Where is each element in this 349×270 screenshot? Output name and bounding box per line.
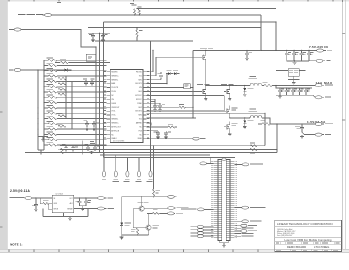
ground reg out caps: [80, 206, 86, 208]
wire J1 right fan 4: [234, 232, 253, 235]
inductor L1: [249, 76, 262, 85]
label mid C27: [82, 141, 95, 155]
wire y62.5 with resistor R6: [55, 59, 110, 64]
connector J1 pin stubs: [214, 161, 218, 237]
connector E1 PWR_SYS_ON: [18, 13, 53, 16]
wire SW2 route: [147, 112, 265, 114]
svg-text:INTVCC: INTVCC: [136, 99, 143, 101]
resistor ladder R26: [44, 142, 107, 146]
feedback resistor R38: [250, 143, 257, 147]
svg-text:LINEAR TECHNOLOGY CORPORATION: LINEAR TECHNOLOGY CORPORATION: [277, 222, 333, 226]
resistor ladder R10: [44, 58, 107, 62]
wire reg output: [74, 197, 98, 199]
junction top rail: [134, 14, 135, 15]
junction dots switch1: [229, 85, 230, 86]
capacitor C22 extvcc: [158, 103, 165, 111]
wire vout cap bank top: [276, 86, 312, 89]
resistor ladder R12: [44, 68, 107, 72]
diode D6 vertical: [120, 222, 131, 236]
capacitor C18 vout: [298, 88, 304, 96]
connector E7 GND vout: [312, 95, 331, 99]
connector J1 body: [218, 160, 230, 241]
resistor R37 fcb: [168, 124, 177, 128]
FET Q5 phase2 bottom: [224, 121, 237, 132]
svg-text:OUT: OUT: [69, 198, 72, 200]
wire top rail 2: [137, 8, 276, 10]
wire phase2 fet rail: [223, 95, 225, 111]
wire J1 right fan 2: [234, 227, 253, 230]
connector E4 GND terminal: [314, 59, 331, 62]
ground mid cluster: [41, 139, 45, 142]
wire ladder inner rail x66: [65, 76, 67, 118]
power good resistor block: [276, 69, 305, 84]
svg-text:SW2: SW2: [138, 115, 142, 117]
capacitor C23: [154, 131, 160, 139]
wire VOUT io rail: [258, 123, 315, 125]
capacitor C30 reg out: [84, 198, 91, 206]
testpoint TP3: [114, 155, 118, 180]
ground vout bank: [278, 95, 282, 98]
wire J1 right fan 5: [234, 235, 253, 238]
label top small 1: [57, 1, 61, 4]
connector E6 VOUT_CPU_CORE: [315, 84, 333, 87]
IC U2 LT1121 regulator: [48, 193, 74, 212]
resistor ladder R18: [44, 100, 107, 104]
power rail top y50.4: [193, 49, 261, 51]
svg-text:SENSE1-: SENSE1-: [111, 79, 118, 81]
wire J1 right fan 1: [234, 224, 256, 227]
svg-text:SENSE1+: SENSE1+: [111, 75, 118, 77]
svg-text:BOOST1: BOOST1: [135, 83, 142, 85]
wire feedback vertical x265: [264, 113, 266, 146]
sense resistor RS2: [260, 120, 270, 125]
page margin strip left: [0, 0, 7, 249]
connector E9 GND io: [302, 132, 331, 136]
resistor ladder R17: [44, 95, 107, 99]
capacitor C5 input: [292, 50, 298, 61]
svg-text:DEMO BOARD: DEMO BOARD: [287, 245, 306, 249]
svg-text:BG2: BG2: [139, 107, 142, 109]
wire J1 top right: [234, 163, 242, 165]
connector E10 VOUT_CPU_CLK in: [10, 197, 32, 200]
svg-text:EXTVCC: EXTVCC: [135, 95, 142, 97]
wire BOOST1 route: [147, 83, 167, 85]
svg-text:U1 LTC1709EG: U1 LTC1709EG: [113, 141, 125, 143]
capacitor C1: [89, 33, 95, 39]
wire INTVCC route: [147, 99, 155, 104]
wire BG1 route: [147, 90, 200, 92]
wire PGND route: [147, 102, 160, 104]
connector J1 pin numbers: [211, 160, 213, 163]
ground io: [300, 135, 304, 138]
sense resistor RS1: [262, 82, 272, 87]
svg-text:SW1: SW1: [138, 79, 142, 81]
wire input ground bus: [287, 60, 309, 62]
wire TG1 route: [147, 57, 200, 76]
svg-text:PLLFLTR: PLLFLTR: [111, 87, 119, 89]
bottom border ticks: [9, 250, 10, 253]
ground U2: [68, 217, 72, 220]
capacitor C10 ith: [83, 120, 89, 131]
svg-text:2.5V@0.11A: 2.5V@0.11A: [10, 189, 30, 193]
title header row: [275, 242, 342, 245]
svg-text:NOTE 1:: NOTE 1:: [10, 242, 22, 246]
junction dots ladder: [44, 70, 45, 71]
FET Q4 phase2 top: [224, 106, 237, 118]
svg-text:VOS-: VOS-: [111, 111, 115, 113]
wire BOOST2 route: [147, 110, 224, 112]
switch node phase2 wire: [230, 117, 250, 119]
wire vertical from PWR_SYS_ON: [260, 15, 262, 50]
ground ladder rails: [39, 152, 43, 155]
label TP row texts: [113, 180, 119, 183]
diode D2 BAT54: [166, 70, 173, 75]
capacitor C19 vout: [304, 88, 310, 96]
ground C31: [245, 57, 249, 60]
resistor ladder R11: [44, 63, 107, 67]
wire ladder rail x44: [43, 60, 45, 150]
resistor R36 gate: [179, 104, 193, 108]
capacitor C7 input: [307, 50, 313, 61]
wire J1 bottom ground: [220, 241, 228, 245]
wire q node2: [144, 207, 167, 209]
capacitor C25 mid: [62, 144, 68, 151]
testpoint TP5: [137, 158, 141, 181]
resistor R3 pullup: [132, 5, 137, 15]
wire net +5VIN: [21, 30, 96, 48]
wire y41 run: [95, 40, 193, 42]
wire bus y149.5: [60, 149, 277, 151]
resistor R40 reg: [40, 198, 52, 205]
testpoint TP2: [102, 152, 106, 180]
resistor ladder R23: [44, 126, 107, 130]
svg-text:FCB: FCB: [139, 130, 142, 132]
diode D4 schottky phase1: [243, 85, 253, 96]
wire J1 top left: [207, 162, 214, 164]
right border zone ticks: [342, 120, 345, 121]
connector E13 top left: [200, 162, 207, 165]
wire vertical rail B: [99, 33, 101, 152]
resistor ladder R14: [44, 79, 107, 83]
connector E12 sense out: [98, 207, 114, 210]
capacitor C29 reg out: [76, 198, 82, 206]
testpoint TP4: [125, 158, 129, 181]
svg-text:U2 LT1121: U2 LT1121: [56, 193, 64, 195]
resistor R31: [57, 113, 66, 117]
svg-text:7.5V-24V IN: 7.5V-24V IN: [309, 45, 328, 49]
FET Q2 phase1 bottom: [197, 84, 209, 97]
capacitor C31 vin local: [245, 50, 252, 57]
label VOUT_CPU_CLK left: [181, 208, 196, 211]
wire feedback vertical x277: [276, 124, 278, 152]
resistor R41 vertical: [153, 189, 160, 196]
testpoint TP9: [168, 212, 184, 215]
resistor R5: [136, 27, 143, 42]
capacitor C24: [164, 131, 171, 139]
resistor ladder R20: [44, 111, 107, 115]
capacitor C28 reg in: [32, 198, 38, 211]
capacitor C16 vout: [285, 88, 291, 96]
resistor R33 vertical: [58, 148, 63, 154]
resistor ladder R25: [44, 137, 107, 141]
capacitor C15 vout: [278, 88, 284, 96]
feedback resistor R39: [250, 148, 257, 153]
switch node phase1 wire: [206, 85, 250, 87]
connector E14 VOUT_CPU_CORE sense: [242, 163, 263, 166]
wire q node1: [122, 196, 168, 198]
wire PGOOD stub: [147, 50, 153, 71]
resistor R42: [147, 209, 168, 214]
svg-text:Low Cost VRM For Mobile Comput: Low Cost VRM For Mobile Computing: [285, 238, 332, 242]
capacitor C11 ith: [92, 121, 99, 130]
connector E17 io: [234, 220, 261, 223]
capacitor C12 ss: [84, 144, 90, 151]
wire J1 right fan 3: [234, 230, 256, 233]
ground C1: [91, 39, 95, 42]
svg-text:BG1: BG1: [139, 91, 142, 93]
wire vertical rail C: [103, 22, 105, 158]
connector J1 key oval: [222, 158, 226, 160]
wire reg bottom loop: [43, 209, 88, 217]
resistor ladder R19: [44, 105, 107, 109]
wire FCB route: [147, 126, 168, 128]
capacitor C26 mid: [71, 146, 78, 152]
resistor ladder R16: [44, 89, 107, 93]
resistor ladder R13: [44, 73, 107, 77]
capacitor C4 input: [285, 50, 291, 61]
diode D3 BAT54: [173, 70, 180, 75]
resistor R4 pullup: [138, 7, 142, 15]
FET Q3 phase1 sync: [221, 84, 233, 97]
wire vertical from +5VIN rail: [275, 22, 277, 50]
testpoint TP7: [168, 195, 177, 198]
svg-text:PGOOD: PGOOD: [136, 71, 143, 73]
diode D1: [62, 65, 72, 71]
title address lines: [277, 228, 295, 237]
top border ticks: [9, 0, 10, 2]
wire bus y152.4: [25, 151, 277, 153]
ground Q5: [228, 133, 232, 136]
top border band: [7, 0, 349, 2]
diode D5 schottky phase2: [243, 117, 253, 128]
svg-text:SENSE2-: SENSE2-: [111, 119, 118, 121]
testpoint TP6: [148, 41, 152, 180]
label top small 2: [130, 2, 134, 5]
ground J1: [222, 244, 226, 247]
ground D6: [120, 236, 124, 239]
right border double line: [341, 0, 343, 253]
wire BG2 route: [147, 106, 179, 108]
svg-text:RUN/SS: RUN/SS: [111, 71, 117, 73]
wire bus y157.6: [104, 157, 236, 159]
connector E3 VIN terminal: [317, 49, 332, 52]
connector E21 left fan: [190, 235, 213, 238]
connector E8 VOUT_CPU_IO: [315, 122, 333, 125]
wire VIN route: [147, 87, 193, 89]
power rail vertical x193: [192, 50, 194, 118]
resistor R32: [57, 124, 66, 128]
wire vout ground bus: [276, 94, 312, 96]
resistor ladder R22: [44, 121, 107, 125]
svg-text:TG2: TG2: [139, 119, 142, 121]
capacitor C14 boost1: [157, 72, 163, 80]
wire net y22: [104, 21, 277, 23]
bottom border band: [0, 249, 349, 253]
wire J1 top feed: [210, 158, 214, 164]
connector E18 left fan: [190, 226, 213, 229]
ground ss caps: [90, 151, 94, 154]
connector E19 left fan: [190, 229, 213, 232]
ground C2: [101, 39, 105, 42]
svg-text:TG1: TG1: [139, 75, 142, 77]
connector E11 2.5V out: [98, 197, 113, 200]
connector E5 VIN aux: [9, 68, 62, 71]
title bottom row: [276, 249, 338, 251]
connector E16 io sense: [234, 206, 265, 209]
transistor Q8: [146, 213, 159, 235]
wire pin route y130.8: [147, 130, 158, 132]
resistor R43 vertical: [131, 228, 139, 235]
wire VIN input rail: [261, 49, 316, 51]
connector J1 inner pin texture: [218, 161, 230, 237]
svg-text:SENSE: SENSE: [67, 209, 72, 211]
wire q base route: [133, 209, 146, 228]
wire q bottom: [122, 234, 149, 236]
inductor L2: [249, 109, 262, 118]
testpoint TP1 ith: [192, 137, 206, 140]
wire SW1 route: [147, 79, 161, 81]
capacitor C9 pll: [90, 79, 94, 86]
capacitor C20 vout io: [295, 124, 304, 133]
svg-text:BOOST2: BOOST2: [135, 111, 142, 113]
transistor Q7: [133, 197, 149, 211]
wire ladder rail x38: [37, 70, 39, 150]
title block frame: [275, 220, 342, 251]
wire bus y145.7: [60, 145, 265, 147]
wire TG2 long route: [147, 117, 196, 119]
svg-text:VOS+: VOS+: [111, 115, 115, 117]
wire q rail left: [121, 197, 123, 222]
resistor ladder R15: [44, 84, 107, 88]
wire net PWR_SYS_ON: [53, 14, 261, 16]
capacitor C2: [101, 33, 108, 39]
capacitor C13 ss: [93, 145, 100, 151]
svg-text:SENSE2+: SENSE2+: [111, 122, 118, 124]
component S1 jumper box: [86, 54, 96, 61]
wire mid rail y27.5: [88, 27, 261, 29]
resistor ladder R24: [44, 132, 107, 136]
testpoint TP8 sense: [168, 207, 189, 210]
component box T1: [184, 84, 191, 89]
wire AMPMD route: [147, 123, 151, 126]
resistor ladder R21: [44, 116, 107, 120]
wire reg adj: [74, 208, 98, 210]
wire phase2 to sense: [262, 118, 270, 124]
wire q cluster top: [153, 146, 155, 189]
wire reg input: [32, 197, 53, 199]
wire y33 cap feed: [88, 32, 110, 34]
ground input bank: [293, 61, 297, 64]
wire EXTVCC route: [147, 94, 224, 96]
ground Q2: [204, 97, 208, 100]
wire VOUT core rail: [262, 85, 315, 87]
connector E2 +5VIN: [9, 28, 21, 31]
wire bus y155.1: [100, 154, 210, 156]
capacitor C8 pll: [83, 79, 88, 86]
svg-text:LTC1709EG: LTC1709EG: [314, 245, 329, 249]
svg-text:BSEL: BSEL: [138, 138, 142, 140]
ground Q3: [228, 97, 232, 100]
wire vertical rail A: [95, 47, 97, 146]
connector E15 clk: [198, 208, 214, 211]
capacitor C17 vout: [291, 88, 297, 96]
FET Q1 top: [200, 48, 213, 85]
capacitor C6 input: [300, 50, 306, 61]
svg-text:VDIFFOUT: VDIFFOUT: [111, 107, 119, 109]
resistor cluster R27-R30 midcolumn: [57, 76, 66, 80]
capacitor C21 intvcc: [151, 101, 160, 111]
left margin zone ticks: [0, 112, 3, 113]
wire ladder inner rail x72: [71, 81, 73, 129]
connector E20 left fan: [190, 232, 213, 235]
wire pin route y138.7: [147, 138, 192, 140]
wire boost join: [166, 74, 168, 84]
IC U1 LTC1709EG: [104, 70, 149, 143]
